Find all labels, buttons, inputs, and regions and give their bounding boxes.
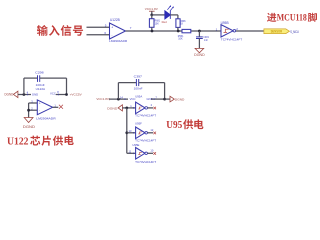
node vcc junction [150,14,153,17]
svg-text:DGND: DGND [5,93,14,97]
buffer U95B [216,21,243,41]
inverter bubble [145,132,148,135]
annotation U95供电 [166,119,203,131]
svg-text:DGND: DGND [194,53,205,57]
ground triangle [24,118,33,123]
node gnd junction [163,98,166,101]
node R681/main [151,30,154,33]
wire output stub [148,132,154,134]
inverter bubble [145,152,148,155]
wire right riser [66,78,68,94]
svg-text:C397: C397 [134,75,143,79]
capacitor C298 [35,71,45,91]
node R696/main [177,30,180,33]
svg-text:SENSOR: SENSOR [271,29,283,33]
svg-text:-: - [111,33,112,37]
off-page connector body [264,29,290,34]
wire R696 to main line [177,27,179,31]
pin tick [153,98,155,100]
svg-text:MCU118: MCU118 [277,12,307,22]
ground triangle [195,48,204,52]
pin 7 GND [147,96,165,101]
svg-text:100nF: 100nF [134,87,143,91]
svg-text:DGND: DGND [175,98,185,102]
svg-text:LM2904ADR: LM2904ADR [109,39,128,43]
node vcc junction [117,98,120,101]
node gnd junction [23,93,26,96]
svg-text:1K: 1K [180,22,183,26]
node bus top [125,107,128,110]
wire dgnd to gnd pin [18,94,31,96]
resistor body R681 [149,19,154,28]
wire rail right [40,77,67,79]
wire output stub [148,107,154,109]
wire output stub [53,106,59,108]
wire LED cathode down [177,15,179,19]
annotation U122芯片供电 [7,135,74,147]
svg-text:U122: U122 [7,136,29,148]
pin tick [57,94,59,96]
LED emission arrow 1 [167,6,170,10]
wire input stub [127,132,136,134]
inverter body U95E [136,148,145,160]
wire input- [87,34,110,36]
svg-text:U95F: U95F [135,122,142,126]
LED emission arrow 2 [170,7,173,11]
no-ERC cross [153,132,156,135]
capacitor plate right [138,79,140,86]
pin tick [133,132,135,134]
svg-text:U122A: U122A [36,87,46,91]
resistor body R561 [182,29,191,32]
pin tick [133,107,135,109]
svg-text:+: + [39,101,41,105]
op-amp U122B [109,18,132,43]
power symbol bar [149,10,155,12]
node inputs junction [27,109,30,112]
wire LED to R696 [170,14,178,16]
wire rail right [139,82,165,84]
capacitor plate bottom [196,38,203,40]
op-amp U122A [27,99,63,120]
resistor body R696 [176,19,180,28]
node vcc5 junction [65,93,68,96]
pin tick [124,98,126,100]
svg-text:1nF: 1nF [204,38,208,42]
svg-text:10K: 10K [155,22,159,26]
schmitt hysteresis mark [138,107,142,109]
buffer body U95B [221,25,233,37]
wire label to junction [109,98,128,100]
pin tick [27,94,29,96]
capacitor C393 [196,31,209,48]
wire rail left [24,77,38,79]
inverter body U95F [136,127,145,139]
capacitor plate top [196,36,203,38]
resistor R561 [178,29,191,40]
inverter bubble [145,107,148,110]
svg-text:U95: U95 [166,119,182,131]
LED body [165,11,170,19]
svg-text:+VCC5V: +VCC5V [70,93,83,97]
annotation 输入信号 [37,25,83,36]
wire right riser [164,83,166,100]
schmitt hysteresis mark [138,152,142,154]
svg-text:TC74VHC14FT: TC74VHC14FT [221,37,243,41]
net flag off-page to MCU [264,29,299,34]
schmitt hysteresis mark [138,132,142,134]
op-amp body U122A [37,100,52,115]
capacitor C397 [134,75,143,91]
resistor R681 [149,19,160,31]
svg-text:GND: GND [32,92,38,96]
wire input+ [87,26,110,28]
annotation 进MCU118脚 [267,12,317,22]
wire vcc pin stub [56,94,67,96]
svg-text:TC74VHC14FT: TC74VHC14FT [135,138,156,142]
wire left riser [23,78,25,94]
inverter U95A gate [130,102,156,117]
no-ERC cross [153,107,156,110]
inverter U95F gate [125,122,156,143]
wire inputs tied to ground [28,103,30,118]
ground arrow [118,105,122,111]
wire R681 to main line [151,27,153,31]
wire cap to ground [198,39,200,49]
svg-text:U122B: U122B [110,18,120,22]
node C393 tap [198,30,201,33]
capacitor plate left [37,75,39,82]
wire tap down [198,31,200,37]
LED D Red [162,5,174,24]
svg-text:VCC: VCC [50,92,56,96]
wire input stub [127,152,136,154]
wire pin3 stub [29,102,38,104]
wire down to R681 [151,15,153,19]
pin 14 VCC [120,96,136,101]
svg-text:DGND: DGND [107,106,118,110]
schmitt hysteresis mark [224,29,229,32]
wire output stub [148,152,154,154]
wire bus vertical [126,108,128,153]
svg-text:-: - [39,109,40,113]
pin 4 GND [27,90,39,96]
wire pin2 stub [29,109,38,111]
inverter body U95A [136,102,145,114]
resistor R696 [176,15,186,31]
node bus tap [125,131,128,134]
pin tick [133,153,135,155]
ground DGND below U122A [23,118,35,129]
svg-text:DGND: DGND [23,125,35,129]
wire to bus [122,107,135,109]
wire gnd pin stub [151,98,165,100]
svg-text:TC74VHC14FT: TC74VHC14FT [135,114,156,118]
pin 8 VCC [50,90,67,96]
ground DGND at U95A input [107,105,122,111]
wire to LED [152,14,165,16]
svg-text:10K: 10K [178,37,183,41]
svg-text:+: + [111,26,113,30]
inverter bubble [233,30,236,33]
wire left riser [117,83,119,100]
LED cathode bar [169,11,171,19]
svg-text:C298: C298 [35,71,44,75]
svg-text:VCC1.8V): VCC1.8V) [96,97,110,101]
svg-text:U95A: U95A [135,95,142,99]
capacitor plate left [135,79,137,86]
ground arrow [13,91,18,97]
ground DGND below C393 [194,48,205,57]
inverter U95E gate [127,143,157,164]
svg-text:U95E: U95E [132,143,139,147]
capacitor plate right [39,75,41,82]
wire power drop [151,11,153,15]
wire to ground symbol [165,98,170,100]
power VCC1.8V top [145,7,159,15]
wire rail left [118,82,136,84]
wire main output line [126,30,265,32]
no-ERC cross [153,152,156,155]
svg-text:VCC1.8V: VCC1.8V [145,7,159,11]
svg-text:U95B: U95B [221,21,229,25]
svg-text:TC74VHC14FT: TC74VHC14FT [135,160,156,164]
ground DGND right [165,96,186,102]
no-ERC cross [59,105,63,109]
ground arrow [170,96,174,102]
svg-text:S_MCU: S_MCU [290,30,299,34]
svg-text:LM2904ADR: LM2904ADR [36,117,56,121]
svg-text:Red: Red [162,20,168,24]
ground DGND left [5,91,18,97]
